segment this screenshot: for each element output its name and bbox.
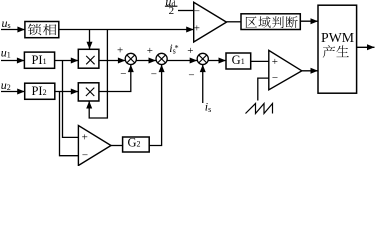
svg-text:−: − <box>188 70 194 82</box>
svg-text:PWM: PWM <box>321 30 354 45</box>
svg-text:us: us <box>2 16 11 30</box>
svg-text:−: − <box>151 68 157 80</box>
svg-text:is: is <box>205 99 211 114</box>
svg-text:+: + <box>272 56 278 68</box>
svg-text:u1: u1 <box>1 46 11 60</box>
svg-text:−: − <box>120 68 126 80</box>
svg-text:+: + <box>147 45 153 57</box>
svg-text:2: 2 <box>169 5 175 17</box>
svg-text:+: + <box>117 45 123 57</box>
svg-text:−: − <box>82 150 88 162</box>
svg-text:+: + <box>187 45 193 57</box>
svg-text:+: + <box>82 131 88 143</box>
svg-text:+: + <box>194 22 200 34</box>
svg-text:is*: is* <box>169 41 178 56</box>
svg-text:−: − <box>272 72 278 84</box>
svg-text:u2: u2 <box>1 78 11 92</box>
svg-text:−: − <box>194 5 200 17</box>
